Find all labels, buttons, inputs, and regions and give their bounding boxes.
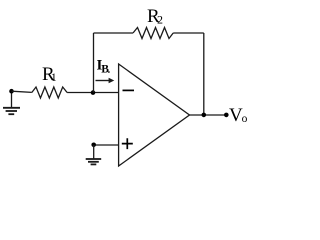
svg-text:1: 1 [51,70,57,84]
resistor R2 [133,28,173,39]
wire: non-inverting input [94,144,119,146]
arrow: bias current direction [96,80,110,82]
node: R1 left terminal junction [9,89,14,94]
wire: left ground to R1 [12,91,32,92]
svg-text:2: 2 [157,12,163,26]
wire: R1 to op-amp inverting input [67,92,119,94]
op-amp non-inverting input symbol (plus) [122,138,133,149]
wire: R2 to right vertical [173,32,204,34]
svg-text:B: B [101,64,109,76]
wire: op-amp output to Vo [190,114,227,116]
wire: feedback vertical (node A up to R2) [93,33,95,93]
node: Vo terminal [224,113,229,118]
op-amp U1 [119,64,190,166]
node: + input ground junction [91,143,96,148]
node: output junction [202,113,207,118]
ground (below + input) [86,145,102,164]
wire: right vertical down to output node [203,33,205,115]
svg-text:o: o [242,113,248,125]
resistor R1 [32,87,67,98]
ground (left, input side) [3,91,20,114]
node A: inverting input / feedback junction [91,90,96,95]
wire: top left horizontal to R2 [94,32,134,34]
op-amp inverting input symbol (minus) [123,89,135,91]
